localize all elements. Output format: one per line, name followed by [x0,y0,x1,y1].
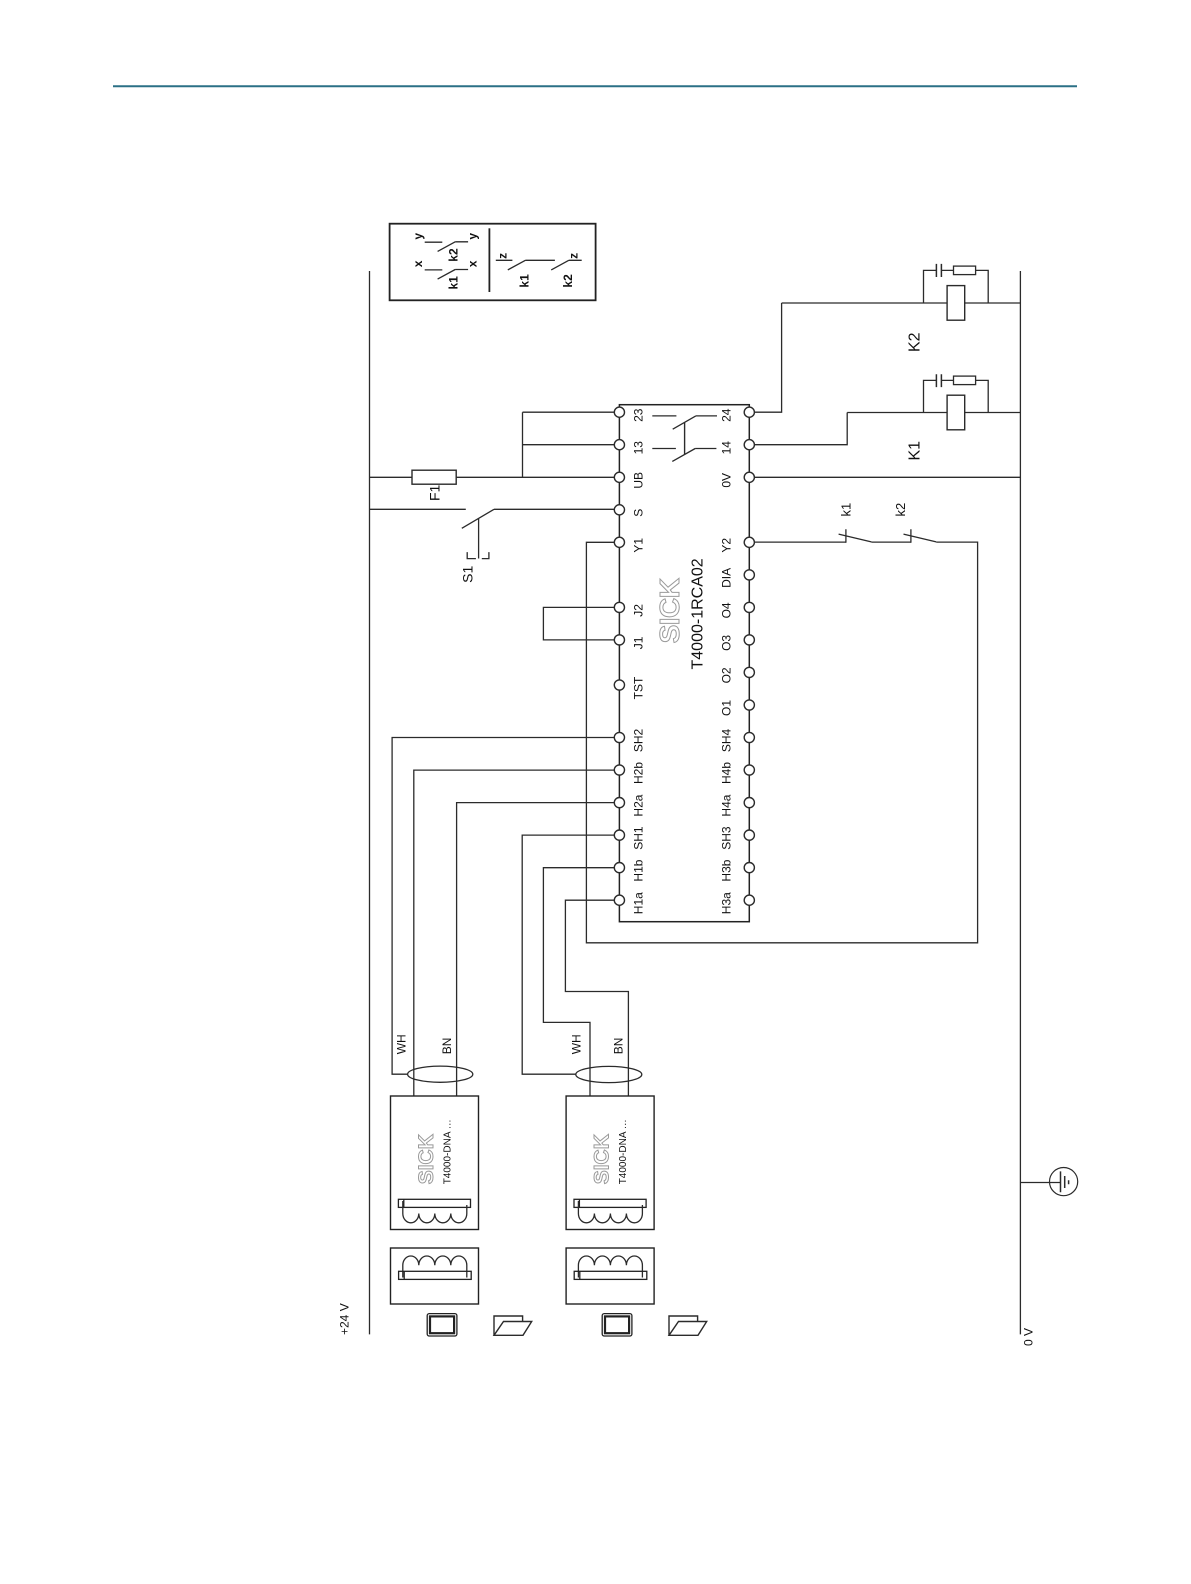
svg-text:O2: O2 [719,667,733,683]
svg-text:23: 23 [631,408,645,422]
svg-text:SH1: SH1 [631,826,645,850]
functional earth symbol [1061,1171,1069,1192]
pin 0V [744,472,754,482]
wire Y2 to contact k1 [754,541,846,543]
transponder 2 ferrite bar end cell [579,1271,581,1279]
svg-text:k1: k1 [838,503,853,517]
capacitor K1 snubber plates [936,374,941,387]
pin UB [614,472,624,482]
transponder 2 coil winding [578,1256,642,1278]
pin SH4 [744,732,754,742]
pin H4b [744,765,754,775]
svg-text:K2: K2 [907,332,924,352]
mechanical linkage bar [684,423,686,455]
svg-text:O1: O1 [719,700,733,716]
wire 0V pin to 0V rail [754,476,1020,478]
folder icon sensor 1 [494,1316,532,1335]
sensor 1 cable screen oval [408,1066,473,1082]
wire pin 24 to relay K2 [754,303,781,412]
transponder 2 ferrite bar [574,1271,647,1279]
transponder 2 box [566,1248,654,1304]
pin H1a [614,895,624,905]
svg-text:0 V: 0 V [1022,1328,1036,1346]
svg-text:SICK: SICK [654,578,685,643]
svg-text:SH4: SH4 [719,729,733,753]
svg-text:H2b: H2b [631,762,645,784]
internal contact 23-24 [652,416,717,429]
svg-text:K1: K1 [907,441,924,461]
transponder 1 box [391,1248,479,1304]
svg-text:0V: 0V [719,473,733,488]
switch S1 reset pushbutton [462,509,615,558]
svg-text:H4a: H4a [719,794,733,816]
monitor icon sensor 1 [427,1314,457,1336]
contact k2 (NC) [904,529,937,543]
svg-text:14: 14 [719,441,733,455]
svg-text:DIA: DIA [719,568,733,588]
sensor 2 read head T4000-DNA body [566,1096,654,1230]
svg-text:+24 V: +24 V [338,1303,352,1335]
pin O4 [744,602,754,612]
sensor 2 ferrite bar end cell [578,1199,580,1207]
svg-text:UB: UB [631,472,645,489]
svg-text:k2: k2 [447,248,461,262]
relay K1 branch wire [847,412,1020,414]
contact k1 (NC) [839,529,911,543]
pin H3b [744,863,754,873]
pin Y2 [744,537,754,547]
monitor icon sensor 2 [602,1314,632,1336]
wire SH1 to sensor 2 shield [522,835,614,1074]
pin H2a [614,798,624,808]
svg-text:SICK: SICK [590,1134,613,1184]
pin DIA [744,570,754,580]
wire to functional earth [1020,1182,1060,1184]
pin 24 [744,407,754,417]
pin TST [614,680,624,690]
svg-text:TST: TST [631,676,645,699]
transponder 1 coil winding [403,1256,467,1278]
legend divider [488,228,490,292]
svg-text:Y1: Y1 [631,538,645,553]
pin H1b [614,863,624,873]
svg-text:H3b: H3b [719,859,733,881]
sensor 1 read head T4000-DNA body [391,1096,479,1230]
capacitor K2 snubber plates [936,264,941,277]
pin SH2 [614,732,624,742]
svg-text:H1a: H1a [631,892,645,914]
svg-text:k2: k2 [893,503,908,517]
svg-text:T4000-1RCA02: T4000-1RCA02 [690,558,707,669]
folder icon sensor 2 [669,1316,707,1335]
svg-text:WH: WH [394,1034,408,1054]
svg-text:S: S [631,509,645,517]
svg-text:24: 24 [719,408,733,422]
wire H2b to sensor 1 WH [414,770,615,1096]
pin H3a [744,895,754,905]
svg-text:x: x [411,260,425,267]
pin J1 [614,635,624,645]
suppressor K2 RC snubber [924,270,989,303]
0 V return rail [1019,271,1021,1334]
svg-text:k2: k2 [561,274,575,288]
legend series chain z-k1-k2-z [496,260,582,270]
wire Y1 loop [586,542,977,943]
svg-text:SH2: SH2 [631,729,645,753]
+24 V supply rail [369,271,371,1334]
relay coil K2 [947,286,965,321]
svg-text:13: 13 [631,441,645,455]
relay coil K1 [947,395,965,430]
pin 13 [614,440,624,450]
svg-text:BN: BN [440,1038,454,1055]
pin J2 [614,602,624,612]
svg-text:z: z [495,253,509,259]
svg-text:WH: WH [569,1034,583,1054]
pin H2b [614,765,624,775]
svg-text:k1: k1 [447,276,461,290]
relay K2 branch wire [782,302,1021,304]
svg-text:H3a: H3a [719,892,733,914]
svg-text:k1: k1 [518,274,532,288]
transponder 1 ferrite bar [399,1271,472,1279]
sensor 1 ferrite bar [398,1199,470,1207]
legend box frame [390,224,596,301]
svg-text:F1: F1 [427,484,443,501]
internal contact 13-14 [652,449,716,462]
svg-text:S1: S1 [460,566,476,583]
wire SH2 to sensor 1 shield [392,738,614,1075]
svg-text:y: y [411,233,425,240]
sensor 1 ferrite bar end cell [403,1199,405,1207]
sensor 2 cable screen oval [576,1066,642,1082]
pin Y1 [614,537,624,547]
svg-text:O4: O4 [719,602,733,618]
pin SH3 [744,830,754,840]
svg-text:z: z [567,253,581,259]
pin 14 [744,440,754,450]
svg-text:BN: BN [611,1038,625,1055]
legend contact k1 (x-x) [425,270,468,280]
wire jumper 13/23 to UB [523,412,615,477]
pin H4a [744,798,754,808]
sensor 2 coil winding [578,1201,642,1223]
wire H1b to sensor 2 WH [543,868,614,1096]
wire H2a to sensor 1 BN [457,803,615,1096]
resistor K1 snubber [954,376,976,385]
wire pin 14 to relay K1 [754,413,847,445]
svg-text:SICK: SICK [415,1134,438,1184]
svg-text:T4000-DNA …: T4000-DNA … [442,1119,453,1184]
legend contact k2 (y-y) [425,242,468,252]
pin O2 [744,667,754,677]
sensor 1 coil winding [403,1201,467,1223]
svg-text:H2a: H2a [631,794,645,816]
pin O1 [744,700,754,710]
svg-text:H4b: H4b [719,762,733,784]
pin 23 [614,407,624,417]
pin O3 [744,635,754,645]
wire S from +24V rail [370,508,466,510]
safety evaluation unit U1 T4000-1RCA02 body [619,405,749,922]
svg-text:H1b: H1b [631,859,645,881]
svg-text:SH3: SH3 [719,826,733,850]
suppressor K1 RC snubber [924,380,989,412]
wire UB supply from +24V rail [370,476,615,478]
pin S [614,505,624,515]
svg-text:Y2: Y2 [719,538,733,553]
fuse F1 [412,470,456,484]
svg-text:J2: J2 [631,604,645,617]
wire jumper J1-J2 [543,607,614,640]
svg-text:O3: O3 [719,635,733,651]
svg-text:T4000-DNA …: T4000-DNA … [618,1119,629,1184]
svg-text:x: x [466,260,480,267]
svg-text:y: y [466,233,480,240]
svg-text:J1: J1 [631,636,645,649]
teal header rule [113,85,1077,87]
sensor 2 ferrite bar [574,1199,646,1207]
wire H1a to sensor 2 BN [565,900,628,1096]
pin SH1 [614,830,624,840]
transponder 1 ferrite bar end cell [403,1271,405,1279]
resistor K2 snubber [954,266,976,275]
